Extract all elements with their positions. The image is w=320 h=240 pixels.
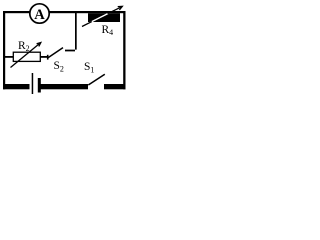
- ammeter: circle: [30, 4, 49, 23]
- rheostat R4 arrowhead: [118, 6, 123, 9]
- switch S1 blade: [88, 74, 105, 85]
- wire: right border: [123, 11, 125, 89]
- wire: R2 to S2: [40, 56, 47, 58]
- battery cell: long thin electrode: [32, 73, 34, 94]
- wire: bottom border middle segment: [41, 84, 89, 89]
- wire: top border: [3, 11, 125, 13]
- background: [0, 0, 135, 97]
- wire: left branch from border to R2: [5, 56, 14, 58]
- svg-text:A: A: [34, 7, 45, 23]
- wire: S2 elbow to vertical: [65, 13, 77, 51]
- rheostat R4 box: [88, 13, 120, 22]
- resistor R2 arrow shaft: [11, 43, 41, 68]
- switch S2 contact tick: [47, 55, 49, 60]
- rheostat R4 arrow white streak across box: [82, 6, 122, 26]
- switch S2 blade: [48, 48, 63, 58]
- rheostat R4 arrow tail: [82, 22, 92, 27]
- wire: left border: [3, 11, 5, 89]
- resistor R2 box: [13, 52, 40, 61]
- wire: bottom border right segment: [104, 84, 126, 89]
- battery cell: short thick electrode: [38, 78, 41, 93]
- resistor R2 arrowhead: [37, 43, 41, 47]
- rheostat R4 arrow head segment: [108, 6, 123, 13]
- wire: bottom border left segment: [3, 84, 30, 89]
